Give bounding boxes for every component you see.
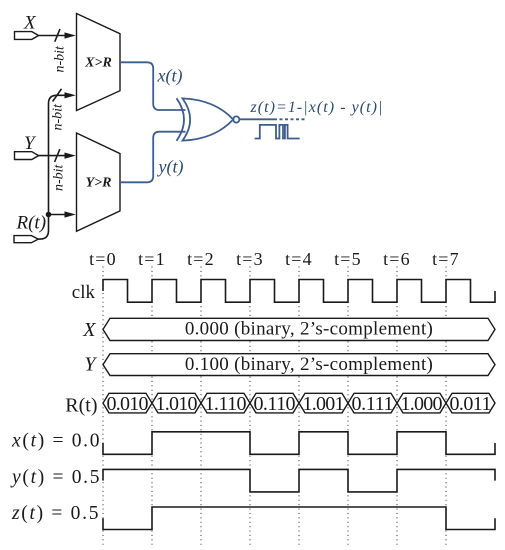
svg-text:n-bit: n-bit: [53, 45, 68, 73]
svg-text:y(t): y(t): [157, 157, 184, 178]
svg-text:Y: Y: [24, 133, 37, 154]
svg-text:t=3: t=3: [236, 249, 264, 269]
svg-text:0.110: 0.110: [254, 393, 296, 415]
svg-text:n-bit: n-bit: [51, 103, 66, 131]
svg-text:1.001: 1.001: [303, 393, 345, 415]
svg-text:x(t): x(t): [157, 66, 183, 87]
svg-text:0.100 (binary, 2’s-complement): 0.100 (binary, 2’s-complement): [185, 354, 433, 375]
svg-text:z(t)=1-|x(t) - y(t)|: z(t)=1-|x(t) - y(t)|: [250, 99, 384, 116]
svg-text:0.111: 0.111: [352, 393, 394, 415]
svg-text:t=5: t=5: [334, 249, 362, 269]
svg-text:0.010: 0.010: [107, 393, 149, 415]
svg-text:t=7: t=7: [432, 249, 460, 269]
svg-text:Y: Y: [84, 354, 97, 376]
svg-text:1.110: 1.110: [205, 393, 247, 415]
svg-text:n-bit: n-bit: [52, 163, 67, 191]
svg-text:x(t) = 0.0: x(t) = 0.0: [11, 431, 101, 452]
svg-text:R(t): R(t): [16, 213, 47, 234]
svg-text:t=1: t=1: [138, 249, 166, 269]
svg-text:0.011: 0.011: [450, 393, 492, 415]
svg-text:y(t) = 0.5: y(t) = 0.5: [10, 467, 101, 488]
svg-text:Y>R: Y>R: [86, 176, 112, 191]
svg-text:t=0: t=0: [89, 249, 117, 269]
svg-text:X: X: [82, 319, 96, 341]
svg-text:t=2: t=2: [187, 249, 215, 269]
svg-text:z(t) = 0.5: z(t) = 0.5: [11, 503, 100, 524]
svg-text:clk: clk: [72, 282, 96, 303]
svg-text:X>R: X>R: [84, 56, 112, 71]
svg-text:t=4: t=4: [285, 249, 313, 269]
svg-text:0.000 (binary, 2’s-complement): 0.000 (binary, 2’s-complement): [185, 319, 433, 340]
svg-text:t=6: t=6: [383, 249, 411, 269]
svg-text:X: X: [23, 13, 37, 34]
svg-text:1.010: 1.010: [156, 393, 198, 415]
svg-text:1.000: 1.000: [401, 393, 443, 415]
svg-text:R(t): R(t): [65, 395, 97, 417]
